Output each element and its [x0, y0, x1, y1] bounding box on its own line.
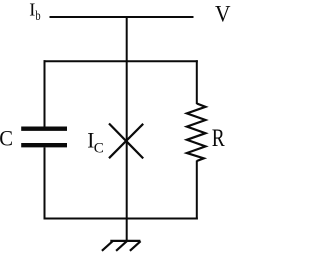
svg-text:V: V: [215, 1, 231, 27]
vertical center wire: [126, 16, 128, 241]
label V (voltage node): [215, 1, 231, 27]
svg-text:I: I: [29, 0, 35, 19]
junction label Ic: [87, 128, 104, 156]
loop bottom wire: [44, 218, 198, 220]
Josephson junction X: [109, 124, 143, 159]
capacitor C plates: [21, 129, 67, 146]
left branch lower wire: [44, 147, 46, 219]
top wire: [50, 16, 194, 18]
label Ib (bias current): [29, 0, 40, 24]
ground: [102, 241, 141, 251]
svg-text:R: R: [212, 123, 226, 151]
svg-text:b: b: [35, 8, 40, 24]
right branch upper wire: [196, 60, 198, 104]
left branch upper wire: [44, 60, 46, 126]
resistor R zigzag: [187, 104, 206, 162]
svg-text:C: C: [94, 141, 104, 157]
right branch lower wire: [196, 161, 198, 220]
loop top wire: [44, 60, 198, 62]
svg-text:C: C: [0, 126, 13, 151]
